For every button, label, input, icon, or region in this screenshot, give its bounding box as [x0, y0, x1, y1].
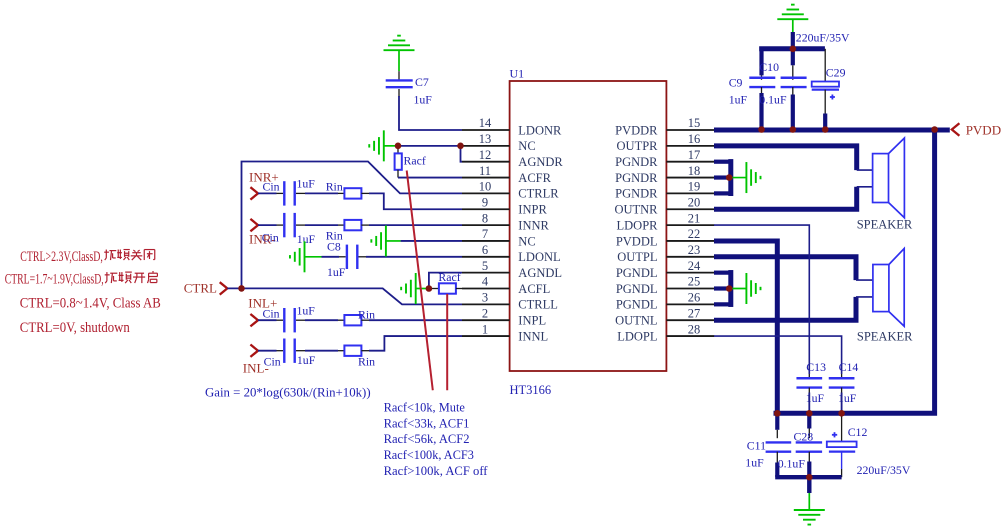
- note CTRL level line 4: [20, 320, 130, 336]
- capacitor C12 (polarized): [827, 413, 857, 477]
- svg-text:LDONL: LDONL: [518, 250, 560, 264]
- svg-text:Racf: Racf: [404, 154, 426, 168]
- label C29: [826, 66, 846, 80]
- svg-text:ACFL: ACFL: [518, 282, 550, 296]
- svg-text:23: 23: [688, 243, 701, 257]
- wire OUTNR to speaker: [714, 187, 873, 209]
- pin 10 CTRLR: [462, 180, 559, 201]
- svg-text:26: 26: [688, 291, 701, 305]
- wire Racf to pin 11: [398, 177, 462, 179]
- svg-text:INNL: INNL: [518, 329, 548, 343]
- wire INR+ to Cin: [258, 192, 283, 194]
- port INR+: [249, 170, 279, 200]
- wire ground to C7: [398, 50, 400, 80]
- svg-text:13: 13: [479, 132, 492, 146]
- value 1uF (C13): [806, 391, 825, 405]
- speaker SPEAKER (left channel): [873, 249, 904, 327]
- wire Cin to Rin: [296, 192, 344, 194]
- pin 12 AGNDR: [462, 148, 563, 169]
- label Racf (right): [404, 154, 426, 168]
- svg-text:24: 24: [688, 259, 701, 273]
- svg-text:INPL: INPL: [518, 314, 546, 328]
- svg-text:0.1uF: 0.1uF: [759, 93, 787, 107]
- wire CTRL to CTRLL (pin 3): [227, 288, 462, 304]
- label C28: [794, 429, 814, 443]
- wire junction to AGNDL pin 5: [429, 273, 462, 289]
- label C8: [327, 240, 341, 254]
- wire ground to pin 7: [386, 240, 462, 242]
- capacitor Cin (INL+): [284, 308, 294, 332]
- svg-text:PGNDL: PGNDL: [616, 298, 658, 312]
- pin 5 AGNDL: [462, 259, 562, 280]
- wire Rin to pin: [361, 224, 462, 226]
- pin 3 CTRLL: [462, 291, 558, 312]
- wire C14 to bottom rail: [841, 388, 843, 414]
- junction (pin12 branch): [457, 143, 464, 150]
- pin 28 LDOPL: [617, 322, 714, 343]
- capacitor C14: [829, 378, 855, 387]
- label Cin (INR-): [262, 231, 279, 245]
- pin 20 OUTNR: [614, 195, 714, 216]
- svg-text:PGNDL: PGNDL: [616, 282, 658, 296]
- svg-text:U1: U1: [510, 67, 525, 81]
- wire ground to junction: [384, 145, 398, 147]
- speaker SPEAKER (right channel): [873, 138, 905, 218]
- pin 7 NC: [462, 227, 536, 248]
- pin 11 ACFR: [462, 164, 552, 185]
- svg-text:PGNDR: PGNDR: [615, 155, 658, 169]
- svg-text:Racf<10k, Mute: Racf<10k, Mute: [384, 400, 466, 415]
- svg-text:C29: C29: [826, 66, 846, 80]
- svg-text:20: 20: [688, 195, 701, 209]
- svg-text:15: 15: [688, 116, 701, 130]
- svg-text:CTRLR: CTRLR: [518, 187, 559, 201]
- svg-text:CTRL=0V, shutdown: CTRL=0V, shutdown: [20, 320, 130, 336]
- wire PVDD rail (pin 15): [714, 128, 950, 133]
- label C11: [747, 438, 766, 452]
- pin 17 PGNDR: [615, 148, 714, 169]
- label Rin (INL+): [358, 308, 375, 322]
- svg-text:OUTNL: OUTNL: [615, 314, 657, 328]
- svg-text:16: 16: [688, 132, 701, 146]
- svg-text:1uF: 1uF: [297, 304, 316, 318]
- pin 2 INPL: [462, 306, 546, 327]
- svg-text:Cin: Cin: [264, 355, 281, 369]
- svg-text:10: 10: [479, 180, 492, 194]
- label SPEAKER (right): [857, 218, 913, 232]
- wire top bar (cap commons): [759, 46, 825, 51]
- label SPEAKER (left): [857, 330, 913, 344]
- wire INL- to Cin: [258, 350, 283, 352]
- svg-text:PVDDR: PVDDR: [615, 123, 658, 137]
- ground (PGNDL): [746, 273, 760, 304]
- svg-text:PGNDR: PGNDR: [615, 171, 658, 185]
- wire ground to top bar: [792, 19, 794, 49]
- value 1uF (C9): [729, 93, 748, 107]
- label C7: [415, 75, 429, 89]
- pin 8 INNR: [462, 211, 550, 232]
- label Cin (INL+): [263, 307, 280, 321]
- label C14: [839, 360, 859, 374]
- svg-text:Racf<56k, ACF2: Racf<56k, ACF2: [384, 431, 470, 446]
- svg-text:PGNDL: PGNDL: [616, 266, 658, 280]
- pin 26 PGNDL: [616, 291, 714, 312]
- note Racf threshold line 2: [384, 415, 470, 430]
- svg-text:ACFR: ACFR: [518, 171, 551, 185]
- capacitor C11: [766, 413, 792, 477]
- svg-text:14: 14: [479, 116, 492, 130]
- note Racf threshold line 5: [384, 463, 489, 478]
- wire LDOPR to C13: [714, 225, 809, 378]
- svg-text:220uF/35V: 220uF/35V: [857, 463, 911, 477]
- svg-text:9: 9: [482, 195, 488, 209]
- svg-text:OUTPL: OUTPL: [617, 250, 657, 264]
- wire C7 to pin 14: [399, 89, 462, 130]
- wire Rin to pin: [361, 319, 462, 321]
- ground (C8): [290, 241, 305, 272]
- capacitor C8: [347, 245, 357, 269]
- capacitor C13: [796, 378, 822, 387]
- value 1uF (INR+ Cin): [297, 177, 316, 191]
- capacitor C10: [781, 49, 807, 129]
- svg-text:18: 18: [688, 164, 701, 178]
- value 0.1uF (C10): [759, 93, 787, 107]
- value 1uF (INL+ Cin): [297, 304, 316, 318]
- resistor Rin (INL-): [344, 346, 361, 356]
- leader line from Racf (right) to notes: [407, 171, 433, 391]
- svg-text:Racf: Racf: [438, 270, 460, 284]
- svg-text:INNR: INNR: [518, 218, 549, 232]
- svg-text:1uF: 1uF: [327, 265, 346, 279]
- value 0.1uF (C28): [778, 456, 806, 470]
- svg-text:220uF/35V: 220uF/35V: [796, 31, 850, 45]
- wire ground to junction: [416, 288, 429, 290]
- label Rin (INL-): [358, 355, 375, 369]
- wire PGNDL bracket (pins 24-26): [714, 270, 731, 307]
- resistor Racf (vertical, right channel): [395, 146, 402, 178]
- svg-text:OUTNR: OUTNR: [614, 203, 658, 217]
- wire junction to pin 13: [398, 145, 462, 147]
- svg-text:Racf<100k, ACF3: Racf<100k, ACF3: [384, 447, 474, 462]
- pin 14 LDONR: [462, 116, 562, 137]
- junction (C14/rail): [838, 410, 845, 417]
- svg-text:12: 12: [479, 148, 492, 162]
- label C9: [729, 76, 743, 90]
- note Racf threshold line 4: [384, 447, 474, 462]
- svg-text:AGNDR: AGNDR: [518, 155, 563, 169]
- note CTRL level line 2: [5, 271, 158, 288]
- wire C13 to bottom rail: [808, 388, 810, 414]
- wire PVDD down the right side: [774, 130, 935, 413]
- port PVDD: [952, 122, 1001, 137]
- value 1uF (C11): [745, 456, 764, 470]
- svg-text:5: 5: [482, 259, 488, 273]
- ground (pin 7): [371, 225, 386, 256]
- junction (CTRL): [238, 285, 245, 292]
- pin 4 ACFL: [462, 275, 550, 296]
- note Racf threshold line 1: [384, 400, 466, 415]
- wire OUTPL to speaker: [714, 257, 873, 280]
- svg-text:NC: NC: [518, 139, 535, 153]
- svg-text:Racf>100k, ACF off: Racf>100k, ACF off: [384, 463, 489, 478]
- label Racf (left): [438, 270, 460, 284]
- junction (Racf top / pin13): [395, 143, 402, 150]
- ground (above C7): [384, 36, 415, 51]
- pin 27 OUTNL: [615, 306, 714, 327]
- junction (PGNDL): [726, 285, 733, 292]
- svg-text:CTRL=1.7~1.9V,ClassD,: CTRL=1.7~1.9V,ClassD,: [5, 272, 104, 288]
- capacitor C28: [796, 413, 822, 477]
- port INL-: [243, 345, 269, 376]
- svg-text:2: 2: [482, 306, 488, 320]
- junction (C13/rail): [806, 410, 813, 417]
- svg-text:Rin: Rin: [358, 355, 375, 369]
- pin 13 NC: [462, 132, 536, 153]
- pin 19 PGNDR: [615, 180, 714, 201]
- junction (C9/rail): [758, 126, 765, 133]
- svg-text:C13: C13: [806, 360, 826, 374]
- pin 18 PGNDR: [615, 164, 714, 185]
- svg-text:CTRL>2.3V,ClassD,: CTRL>2.3V,ClassD,: [20, 249, 103, 265]
- pin 24 PGNDL: [616, 259, 714, 280]
- ground (bottom): [794, 510, 825, 525]
- junction (PGNDR): [726, 174, 733, 181]
- svg-text:1uF: 1uF: [729, 93, 748, 107]
- label C12: [848, 425, 868, 439]
- ground (top right): [777, 5, 808, 20]
- pin 6 LDONL: [462, 243, 561, 264]
- svg-text:1uF: 1uF: [297, 177, 316, 191]
- wire Cin to Rin: [296, 224, 344, 226]
- port CTRL: [184, 281, 228, 296]
- wire PGNDL to ground: [729, 288, 746, 290]
- op-amp/amplifier IC U1 HT3166 body: [510, 81, 667, 371]
- svg-text:17: 17: [688, 148, 701, 162]
- svg-text:LDOPR: LDOPR: [617, 218, 659, 232]
- junction (PVDD feed): [931, 126, 938, 133]
- svg-text:NC: NC: [518, 234, 535, 248]
- capacitor C29 (polarized): [812, 49, 839, 129]
- pin 23 OUTPL: [617, 243, 714, 264]
- svg-text:C7: C7: [415, 75, 429, 89]
- svg-text:LDOPL: LDOPL: [617, 329, 657, 343]
- junction (ACFL cluster): [426, 285, 433, 292]
- svg-text:CTRL: CTRL: [184, 281, 217, 296]
- wire branch to pin 12: [461, 146, 463, 162]
- svg-text:11: 11: [479, 164, 491, 178]
- pin 15 PVDDR: [615, 116, 714, 137]
- ground (ACFL cluster): [401, 273, 416, 304]
- svg-text:28: 28: [688, 322, 701, 336]
- svg-text:C28: C28: [794, 429, 814, 443]
- note gain formula: [205, 384, 371, 399]
- svg-text:HT3166: HT3166: [510, 383, 552, 397]
- pin 25 PGNDL: [616, 275, 714, 296]
- svg-text:C8: C8: [327, 240, 341, 254]
- capacitor Cin (INL-): [284, 339, 294, 363]
- wire ground to C8: [305, 256, 346, 258]
- pin 22 PVDDL: [616, 227, 714, 248]
- value 1uF (INL- Cin): [297, 353, 316, 367]
- wire Cin to Rin: [296, 319, 344, 321]
- wire PGNDR bracket (pins 17-19): [714, 159, 731, 196]
- leader line from Racf (left) to notes: [446, 294, 448, 390]
- wire LDOPL to C14: [714, 336, 842, 378]
- svg-text:OUTPR: OUTPR: [617, 139, 659, 153]
- capacitor Cin (INR+): [284, 181, 294, 205]
- svg-text:1: 1: [482, 322, 488, 336]
- wire Rin to pin (jog): [361, 336, 462, 351]
- junction (bottom bus / ground): [806, 474, 813, 481]
- pin 21 LDOPR: [617, 211, 715, 232]
- svg-text:22: 22: [688, 227, 701, 241]
- svg-text:PVDD: PVDD: [966, 122, 1001, 137]
- port INR-: [249, 219, 276, 247]
- label Cin (INL-): [264, 355, 281, 369]
- wire PVDDL (pin 22) from bottom rail: [714, 241, 777, 413]
- svg-text:21: 21: [688, 211, 701, 225]
- junction (C10/rail): [790, 126, 797, 133]
- svg-text:C9: C9: [729, 76, 743, 90]
- svg-text:19: 19: [688, 180, 701, 194]
- svg-text:7: 7: [482, 227, 488, 241]
- label C10: [759, 60, 779, 74]
- pin 1 INNL: [462, 322, 548, 343]
- label Rin (INR-): [326, 229, 343, 243]
- value 1uF (C7): [414, 93, 433, 107]
- resistor Rin (INR+): [344, 188, 361, 198]
- svg-text:AGNDL: AGNDL: [518, 266, 562, 280]
- value 1uF (INR- Cin): [297, 232, 316, 246]
- pin 9 INPR: [462, 195, 547, 216]
- value 220uF/35V (C29): [796, 31, 850, 45]
- label C13: [806, 360, 826, 374]
- junction (C29/rail): [822, 126, 829, 133]
- wire OUTNL to speaker: [714, 297, 873, 320]
- label Cin (INR+): [263, 180, 280, 194]
- svg-text:CTRLL: CTRLL: [518, 298, 558, 312]
- svg-text:4: 4: [482, 275, 489, 289]
- value 220uF/35V (C12): [857, 463, 911, 477]
- svg-text:1uF: 1uF: [297, 353, 316, 367]
- svg-text:27: 27: [688, 306, 701, 320]
- label Rin (INR+): [326, 180, 343, 194]
- wire INR- to Cin: [258, 224, 283, 226]
- junction (PVDDL/rail): [774, 410, 781, 417]
- svg-text:Cin: Cin: [262, 231, 279, 245]
- wire OUTPR to speaker: [714, 146, 873, 170]
- wire Cin to Rin: [296, 350, 344, 352]
- note CTRL level line 1: [20, 249, 154, 265]
- note Racf threshold line 3: [384, 431, 470, 446]
- wire C8 to pin 6: [359, 256, 463, 258]
- svg-text:SPEAKER: SPEAKER: [857, 330, 913, 344]
- wire PGNDR to ground: [729, 177, 746, 179]
- svg-text:3: 3: [482, 291, 488, 305]
- svg-text:C11: C11: [747, 438, 766, 452]
- resistor Rin (INR-): [344, 220, 361, 230]
- designator U1: [510, 67, 525, 81]
- svg-text:SPEAKER: SPEAKER: [857, 218, 913, 232]
- svg-text:LDONR: LDONR: [518, 123, 562, 137]
- resistor Rin (INL+): [344, 315, 361, 325]
- svg-text:Cin: Cin: [263, 180, 280, 194]
- value 1uF (C14): [838, 391, 857, 405]
- svg-text:Gain = 20*log(630k/(Rin+10k)): Gain = 20*log(630k/(Rin+10k)): [205, 384, 371, 399]
- svg-text:Cin: Cin: [263, 307, 280, 321]
- svg-text:C10: C10: [759, 60, 779, 74]
- junction (top bar / ground): [790, 46, 797, 53]
- svg-text:C14: C14: [839, 360, 859, 374]
- ground (pin 13 net): [369, 130, 384, 161]
- note CTRL level line 3: [20, 296, 161, 312]
- ground (PGNDR): [746, 162, 760, 193]
- wire bottom bus: [775, 475, 841, 479]
- svg-text:1uF: 1uF: [414, 93, 433, 107]
- capacitor C7: [386, 80, 413, 87]
- value 1uF (C8): [327, 265, 346, 279]
- svg-text:C12: C12: [848, 425, 868, 439]
- capacitor Cin (INR-): [284, 213, 294, 237]
- svg-text:25: 25: [688, 275, 701, 289]
- svg-text:1uF: 1uF: [745, 456, 764, 470]
- wire bus to ground: [807, 477, 811, 510]
- svg-text:0.1uF: 0.1uF: [778, 456, 806, 470]
- resistor Racf (horizontal, left channel): [429, 283, 462, 293]
- port INL+: [248, 296, 277, 327]
- svg-text:Rin: Rin: [326, 180, 343, 194]
- svg-text:Racf<33k, ACF1: Racf<33k, ACF1: [384, 415, 470, 430]
- svg-text:8: 8: [482, 211, 488, 225]
- wire CTRL net (up/over to CTRLR pin 10): [242, 162, 463, 289]
- pin 16 OUTPR: [617, 132, 715, 153]
- svg-text:PVDDL: PVDDL: [616, 234, 658, 248]
- value label HT3166: [510, 383, 552, 397]
- wire Rin to pin (jog): [361, 193, 462, 209]
- svg-text:INPR: INPR: [518, 203, 547, 217]
- svg-text:CTRL=0.8~1.4V, Class AB: CTRL=0.8~1.4V, Class AB: [20, 296, 161, 312]
- capacitor C9: [749, 47, 775, 130]
- svg-text:6: 6: [482, 243, 488, 257]
- svg-text:PGNDR: PGNDR: [615, 187, 658, 201]
- svg-text:Rin: Rin: [358, 308, 375, 322]
- svg-text:1uF: 1uF: [297, 232, 316, 246]
- wire INL+ to Cin: [258, 319, 283, 321]
